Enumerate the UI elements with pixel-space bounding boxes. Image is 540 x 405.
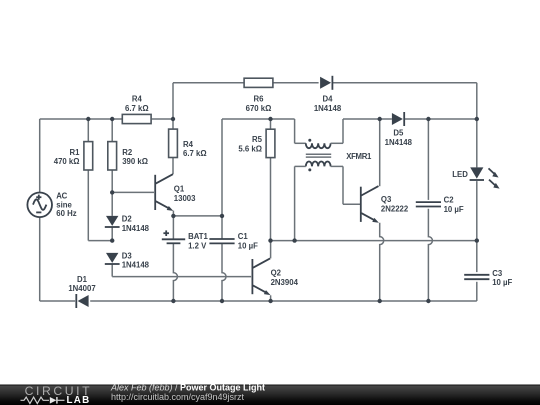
svg-text:D1: D1	[77, 275, 88, 284]
svg-text:60 Hz: 60 Hz	[56, 209, 76, 218]
svg-text:LED: LED	[452, 170, 468, 179]
svg-text:D4: D4	[323, 95, 334, 104]
svg-text:XFMR1: XFMR1	[346, 152, 372, 161]
svg-text:1N4148: 1N4148	[385, 138, 413, 147]
svg-text:Alex Feb (febb) / Power Outage: Alex Feb (febb) / Power Outage Light	[110, 382, 265, 392]
svg-text:R2: R2	[122, 148, 133, 157]
svg-text:1N4007: 1N4007	[68, 284, 95, 293]
svg-text:D5: D5	[393, 129, 404, 138]
svg-text:10 µF: 10 µF	[238, 241, 258, 250]
svg-text:LAB: LAB	[67, 395, 91, 405]
svg-text:10 µF: 10 µF	[444, 205, 464, 214]
svg-text:1N4148: 1N4148	[122, 224, 150, 233]
svg-text:13003: 13003	[174, 194, 196, 203]
svg-text:C2: C2	[444, 196, 455, 205]
svg-text:AC: AC	[56, 191, 67, 200]
svg-text:http://circuitlab.com/cyaf9n49: http://circuitlab.com/cyaf9n49jsrzt	[111, 392, 245, 402]
svg-text:1N4148: 1N4148	[314, 104, 342, 113]
svg-text:R1: R1	[70, 148, 81, 157]
svg-text:1N4148: 1N4148	[122, 261, 150, 270]
svg-text:2N3904: 2N3904	[271, 278, 299, 287]
svg-text:R5: R5	[252, 135, 263, 144]
svg-text:R6: R6	[254, 95, 265, 104]
svg-text:Q2: Q2	[271, 269, 282, 278]
svg-text:C3: C3	[492, 269, 503, 278]
svg-text:390 kΩ: 390 kΩ	[122, 157, 148, 166]
svg-text:10 µF: 10 µF	[492, 278, 512, 287]
svg-text:D2: D2	[122, 215, 133, 224]
svg-text:670 kΩ: 670 kΩ	[246, 104, 272, 113]
svg-text:Q3: Q3	[381, 195, 392, 204]
svg-text:R4: R4	[132, 95, 143, 104]
svg-text:Q1: Q1	[174, 185, 185, 194]
svg-text:R4: R4	[183, 140, 194, 149]
svg-text:6.7 kΩ: 6.7 kΩ	[125, 104, 149, 113]
svg-text:6.7 kΩ: 6.7 kΩ	[183, 149, 207, 158]
svg-text:BAT1: BAT1	[188, 232, 208, 241]
svg-text:5.6 kΩ: 5.6 kΩ	[238, 144, 262, 153]
svg-text:D3: D3	[122, 252, 133, 261]
svg-text:470 kΩ: 470 kΩ	[54, 157, 80, 166]
svg-text:2N2222: 2N2222	[381, 204, 409, 213]
svg-text:C1: C1	[238, 232, 249, 241]
svg-text:1.2 V: 1.2 V	[188, 241, 207, 250]
